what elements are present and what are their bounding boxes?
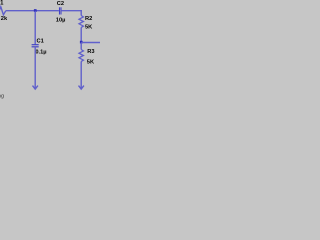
- wire R2 to node B: [80, 27, 82, 42]
- svg-text:5K: 5K: [85, 25, 93, 31]
- svg-text:C1: C1: [37, 39, 44, 45]
- capacitor C2: [59, 7, 61, 14]
- svg-text:C2: C2: [57, 1, 64, 7]
- node junction dot B: [80, 41, 83, 44]
- wire vertical to C1: [34, 11, 36, 45]
- svg-text:ng: ng: [0, 94, 4, 100]
- wire corner down to R2: [80, 10, 82, 16]
- resistor R1 (partially cut off at left edge): [0, 7, 6, 15]
- svg-text:0.1µ: 0.1µ: [35, 50, 46, 56]
- ground arrow right: [79, 86, 84, 90]
- resistor R3: [79, 50, 83, 62]
- svg-text:10µ: 10µ: [56, 17, 66, 23]
- resistor R2: [79, 16, 83, 28]
- wire top horizontal left segment: [6, 10, 59, 12]
- node junction dot A: [34, 9, 37, 12]
- capacitor C1: [32, 44, 39, 46]
- wire to right edge: [81, 42, 100, 44]
- wire node B to R3: [80, 43, 82, 50]
- wire vertical below C1: [34, 47, 36, 89]
- svg-text:R3: R3: [87, 49, 94, 55]
- svg-text:5K: 5K: [87, 59, 95, 65]
- svg-text:2k: 2k: [1, 16, 8, 22]
- wire R3 down: [80, 61, 82, 88]
- wire top horizontal right segment: [62, 10, 82, 12]
- svg-text:R2: R2: [85, 16, 92, 22]
- ground arrow left: [33, 86, 38, 90]
- background: [0, 0, 100, 100]
